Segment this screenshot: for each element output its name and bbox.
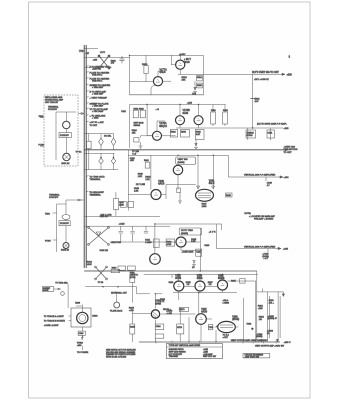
resistor R413 bbox=[166, 239, 175, 246]
svg-text:(6DJ8): (6DJ8) bbox=[232, 319, 239, 321]
svg-text:VERT OUTPUT AMPL V183 V184 +30: VERT OUTPUT AMPL V183 V184 +300V bbox=[231, 339, 268, 342]
resistor R334 bbox=[170, 129, 177, 137]
box C421 bbox=[196, 249, 202, 256]
svg-text:6DJ8: 6DJ8 bbox=[183, 112, 189, 115]
wire oval feeds bbox=[198, 155, 213, 189]
wire right rail row4 bbox=[200, 224, 221, 271]
wire left drop row3 bbox=[150, 155, 152, 189]
wire hv col 0 bbox=[243, 298, 245, 342]
net to crt bbox=[86, 121, 88, 122]
svg-text:TO TRACE A +LIGHT: TO TRACE A +LIGHT bbox=[44, 315, 65, 318]
tube V182B bbox=[150, 254, 161, 265]
svg-text:2.2K: 2.2K bbox=[134, 191, 139, 193]
svg-text:TERMINAL: TERMINAL bbox=[48, 105, 59, 108]
svg-text:RT330: RT330 bbox=[247, 135, 254, 137]
resistor R310 bbox=[144, 66, 148, 74]
wire row1 output line bbox=[178, 69, 285, 74]
svg-text:+ V164 AMP: + V164 AMP bbox=[92, 86, 104, 89]
svg-text:V184: V184 bbox=[197, 275, 203, 277]
svg-text:+C420 100K: +C420 100K bbox=[182, 252, 194, 254]
wire pickoff1 to bus bbox=[78, 113, 84, 115]
tube V179A 6DJ8 bbox=[194, 116, 203, 125]
wire to power bbox=[81, 346, 83, 350]
capacitor C403 bbox=[130, 226, 134, 241]
wire right rail bbox=[202, 55, 204, 95]
svg-text:R321 R322: R321 R322 bbox=[134, 108, 145, 110]
arrowhead row4 bbox=[278, 247, 281, 249]
wire hv col 1 bbox=[256, 271, 258, 342]
tube V178A 6BQ7 bbox=[153, 131, 162, 140]
resistor R261 bbox=[130, 275, 135, 283]
svg-text:LINE TRIG: LINE TRIG bbox=[111, 242, 122, 244]
resistor R262 bbox=[130, 324, 135, 334]
resistor R407 bbox=[128, 266, 136, 270]
tube V178B 6DJ8 bbox=[176, 116, 185, 125]
svg-text:+ LOCATED ON MAIN AMP: + LOCATED ON MAIN AMP bbox=[249, 215, 275, 218]
rails left row4 bbox=[84, 216, 170, 226]
capacitor C331 bbox=[267, 130, 275, 138]
junction dot bbox=[216, 325, 218, 327]
svg-text:B290: B290 bbox=[92, 316, 98, 318]
svg-text:+225: +225 bbox=[187, 103, 193, 105]
ground row4 bbox=[192, 261, 196, 266]
svg-text:100K: 100K bbox=[87, 264, 92, 266]
net heater A bbox=[86, 66, 88, 67]
resistor R412 bbox=[154, 239, 160, 248]
net heater B bbox=[86, 72, 88, 73]
net stub left c bbox=[53, 212, 57, 214]
wire pot rail2 bbox=[84, 153, 114, 158]
svg-text:V163 PIN 4: V163 PIN 4 bbox=[92, 81, 103, 83]
svg-text:TRIGGER: TRIGGER bbox=[169, 356, 179, 358]
crossed network X1 bbox=[88, 227, 110, 246]
wire tube tops bbox=[179, 274, 223, 281]
net vert amp bbox=[86, 91, 88, 92]
title block table bbox=[167, 343, 223, 358]
svg-text:6.8K: 6.8K bbox=[196, 134, 201, 136]
wire grid row4 bbox=[110, 224, 176, 254]
svg-text:TP 28: TP 28 bbox=[98, 282, 104, 284]
svg-text:+225V 1A: +225V 1A bbox=[92, 68, 102, 71]
svg-text:FROM +: FROM + bbox=[163, 309, 172, 311]
wire hv col 2 pair bbox=[267, 292, 269, 342]
svg-text:+VERT SIG: +VERT SIG bbox=[284, 146, 296, 148]
svg-text:WITH BLUE OUTLINE: WITH BLUE OUTLINE bbox=[106, 357, 127, 359]
svg-text:TP8: TP8 bbox=[79, 50, 84, 53]
diode arrow A bbox=[197, 186, 200, 189]
net to delay line bbox=[86, 103, 88, 104]
wire cathode bus row5 bbox=[173, 292, 237, 294]
svg-text:B401 A2: B401 A2 bbox=[62, 162, 71, 165]
tube V184 6DK6 bbox=[195, 281, 205, 291]
pot R204 bbox=[111, 138, 116, 146]
tube internal electrodes bbox=[153, 63, 224, 320]
wire plate drop bbox=[177, 164, 179, 189]
left-of-bus take-off labels row1 bbox=[86, 65, 112, 99]
wire bottomleft rail1 bbox=[84, 270, 132, 272]
net trig pickoff b bbox=[86, 191, 88, 192]
resistor R207 bbox=[114, 199, 119, 210]
wire row4 top rail bbox=[155, 223, 222, 225]
wire mid drop bbox=[194, 81, 196, 90]
resistor R406 bbox=[118, 266, 126, 270]
svg-text:TRIG: TRIG bbox=[45, 213, 50, 215]
svg-text:DLY LINE: DLY LINE bbox=[136, 184, 146, 186]
lamp B403 bbox=[63, 243, 69, 249]
svg-text:6DJ8: 6DJ8 bbox=[184, 61, 190, 64]
junction dot hv bbox=[251, 328, 253, 330]
svg-text:VERTICAL SIG P-P AMPLIFIER: VERTICAL SIG P-P AMPLIFIER bbox=[244, 174, 276, 177]
svg-text:+ V165 AMP: + V165 AMP bbox=[92, 93, 104, 96]
wire pickoff2 frame bbox=[57, 204, 66, 252]
jack J291 bbox=[114, 302, 120, 308]
net to dly amp bbox=[86, 108, 88, 109]
svg-text:6AU6: 6AU6 bbox=[160, 71, 167, 74]
thermistor RT330 bbox=[248, 128, 271, 140]
resistor R315 bbox=[197, 83, 203, 88]
arrowhead output bbox=[282, 73, 285, 75]
resistor R290 bbox=[111, 269, 120, 272]
wire row4 bottom rail bbox=[84, 270, 257, 272]
svg-text:470K: 470K bbox=[167, 244, 172, 246]
left-of-bus take-off labels row2 bbox=[86, 102, 109, 127]
resistor R341 bbox=[145, 162, 150, 168]
wire r207 bbox=[115, 192, 117, 216]
wire row5 feed bbox=[228, 281, 256, 342]
wire grid feed row2 bbox=[147, 105, 152, 136]
svg-text:TO POWER: TO POWER bbox=[77, 352, 89, 354]
wire box to jack bbox=[54, 288, 61, 290]
net vert preamp bbox=[86, 97, 88, 98]
pot R203 bbox=[99, 138, 104, 146]
capacitor C349 bbox=[265, 177, 267, 181]
resistor R272 bbox=[179, 307, 188, 311]
svg-text:(R285): (R285) bbox=[256, 336, 263, 338]
svg-text:CRT CIRCUIT: CRT CIRCUIT bbox=[45, 102, 59, 104]
svg-text:470 +: 470 + bbox=[269, 303, 275, 305]
coil L402 bbox=[62, 215, 70, 220]
net to blank bbox=[86, 115, 88, 116]
wire cathode row2 bbox=[140, 136, 142, 138]
wire row3 output bbox=[228, 176, 283, 178]
svg-text:PRE-AMP + BOARD: PRE-AMP + BOARD bbox=[254, 217, 274, 220]
svg-text:B403 A2: B403 A2 bbox=[61, 249, 70, 252]
svg-text:+DLY +4 SIG 1X: +DLY +4 SIG 1X bbox=[254, 79, 269, 81]
capacitor C319 bbox=[250, 98, 255, 100]
svg-text:PLATE JACK: PLATE JACK bbox=[110, 309, 123, 312]
svg-text:TO CRT: TO CRT bbox=[284, 152, 293, 154]
svg-text:220K: 220K bbox=[119, 204, 124, 206]
wire v187 bottom bbox=[200, 324, 202, 342]
svg-text:+CRT: +CRT bbox=[223, 337, 229, 339]
svg-text:EXTERNAL CRT: EXTERNAL CRT bbox=[111, 291, 127, 294]
svg-text:TO CRT: TO CRT bbox=[90, 125, 98, 127]
net stub left b bbox=[40, 145, 44, 147]
wire row4 output bbox=[217, 248, 282, 250]
wire right drop row3 bbox=[227, 155, 229, 177]
wire drops bbox=[179, 290, 223, 314]
svg-text:TERMINAL: TERMINAL bbox=[90, 178, 102, 181]
svg-text:6EW6: 6EW6 bbox=[218, 278, 225, 280]
wire pickoff2 to bus bbox=[66, 199, 84, 204]
svg-text:VERT SIG: VERT SIG bbox=[178, 159, 188, 161]
note block bottom left bbox=[106, 348, 136, 358]
jack J290 bbox=[61, 292, 65, 296]
note box bottom right bbox=[243, 353, 270, 358]
svg-text:TP 94: TP 94 bbox=[76, 151, 83, 153]
arrowhead rail b bbox=[276, 339, 278, 342]
svg-text:GATE: GATE bbox=[43, 289, 49, 292]
wire upper rail bbox=[84, 56, 129, 58]
tube V182A bbox=[176, 237, 186, 247]
wire lower stub bbox=[84, 66, 104, 68]
resistor R202 bbox=[87, 141, 92, 148]
tube V177B 6AU6 bbox=[176, 60, 185, 69]
wire left col row5 bbox=[131, 271, 133, 342]
wire tube bottom bbox=[81, 327, 83, 331]
net trig pickoff a bbox=[86, 176, 88, 177]
main vertical bus bbox=[84, 45, 86, 268]
resistor R344 bbox=[177, 188, 181, 193]
diode arrow B bbox=[212, 186, 215, 189]
wire row2 dark separator bbox=[84, 149, 288, 151]
svg-text:R310: R310 bbox=[142, 64, 148, 66]
svg-text:+CV TO +.01V: +CV TO +.01V bbox=[90, 122, 105, 124]
pot R206 bbox=[111, 158, 116, 164]
svg-text:PUSH: PUSH bbox=[39, 144, 45, 146]
junction dot pot b bbox=[113, 157, 115, 159]
wire grid feed bbox=[130, 55, 154, 81]
net heater D bbox=[86, 84, 88, 85]
svg-text:V162 PIN 4: V162 PIN 4 bbox=[92, 75, 103, 77]
svg-text:6AU6: 6AU6 bbox=[201, 311, 207, 314]
wire row1 top rail bbox=[130, 54, 204, 56]
junction dots bbox=[129, 55, 254, 295]
wire bottomleft rail2 bbox=[85, 287, 136, 294]
wire cathode loop bbox=[151, 85, 155, 95]
net stub left a bbox=[40, 117, 44, 119]
resistor R335 bbox=[181, 129, 190, 137]
box sweep takeoff bbox=[42, 287, 54, 292]
wire mid drops row5 bbox=[172, 274, 216, 342]
svg-text:1 MEG: 1 MEG bbox=[145, 242, 152, 244]
svg-text:(6AN8): (6AN8) bbox=[178, 161, 185, 164]
svg-text:PICKOFF: PICKOFF bbox=[60, 223, 69, 225]
wire tube chain bbox=[184, 285, 218, 287]
wire row5 bottom rail bbox=[139, 341, 280, 343]
lamp B827 crossed symbol bbox=[98, 55, 110, 69]
wire left feed row5 bbox=[137, 293, 150, 295]
resistor R325 bbox=[134, 138, 139, 142]
CRT V189 oval bbox=[218, 321, 236, 332]
svg-text:(DLY'D SWP) MAIN P-P AMPL: (DLY'D SWP) MAIN P-P AMPL bbox=[257, 123, 288, 126]
svg-text:2.2K: 2.2K bbox=[145, 179, 150, 181]
svg-text:15K: 15K bbox=[132, 132, 136, 134]
tube B401 bbox=[63, 121, 70, 128]
svg-text:TERMINAL: TERMINAL bbox=[90, 194, 102, 197]
delay line V181 oval bbox=[196, 189, 214, 201]
svg-text:SWP DLY 547: SWP DLY 547 bbox=[203, 356, 217, 358]
transformer T270 bbox=[208, 325, 213, 330]
svg-text:TO TRACE B ROTATE: TO TRACE B ROTATE bbox=[44, 320, 66, 323]
svg-text:+ V169: + V169 bbox=[92, 118, 99, 120]
resistor R322 bbox=[140, 110, 145, 118]
svg-text:(HTR): (HTR) bbox=[130, 277, 136, 279]
arrowhead rail a bbox=[260, 339, 262, 342]
wire v186 top bbox=[155, 294, 162, 309]
svg-text:VERT OUTPUT AMP +300V SW: VERT OUTPUT AMP +300V SW bbox=[255, 344, 284, 347]
svg-text:DEFLECTION: DEFLECTION bbox=[284, 149, 298, 151]
svg-text:6BQ7A: 6BQ7A bbox=[159, 125, 167, 128]
svg-text:6AN8: 6AN8 bbox=[155, 302, 161, 305]
svg-text:(6AN8): (6AN8) bbox=[181, 232, 188, 235]
svg-text:V186: V186 bbox=[155, 301, 161, 303]
svg-text:DLY'D VERT SIG TO CRT: DLY'D VERT SIG TO CRT bbox=[252, 72, 279, 74]
tube V187 bbox=[196, 314, 207, 325]
capacitor C293 bbox=[78, 331, 85, 335]
svg-text:+100 THRU 399: +100 THRU 399 bbox=[245, 356, 260, 358]
left-of-bus rows 3 region labels bbox=[86, 176, 105, 197]
resistor R332 bbox=[224, 105, 226, 127]
shield box V291 bbox=[71, 308, 91, 327]
capacitor C402 bbox=[119, 226, 123, 241]
svg-text:V185: V185 bbox=[218, 275, 224, 277]
svg-text:+1 V R: +1 V R bbox=[209, 231, 216, 233]
wire cathode drop bbox=[195, 139, 197, 146]
svg-text:+350 V: +350 V bbox=[284, 342, 292, 344]
svg-text:TO HOLDOFF: TO HOLDOFF bbox=[90, 192, 105, 194]
svg-text:1 MEG: 1 MEG bbox=[223, 302, 230, 304]
svg-text:V187: V187 bbox=[201, 309, 207, 311]
svg-text:TRIG: TRIG bbox=[39, 116, 44, 118]
box C265 bbox=[155, 334, 164, 338]
svg-text:V189: V189 bbox=[232, 316, 238, 318]
junction dots rail2 bbox=[102, 286, 104, 288]
wire v186 right bbox=[161, 313, 196, 315]
svg-text:REPLACING A406: REPLACING A406 bbox=[45, 96, 63, 99]
resistor R336 bbox=[195, 129, 204, 139]
svg-text:6AL5: 6AL5 bbox=[209, 182, 215, 185]
tube V183 6CB6 bbox=[174, 281, 184, 291]
wire v186 bottom bbox=[154, 320, 156, 343]
net label right row2 bbox=[284, 146, 298, 154]
svg-text:PICKOFF: PICKOFF bbox=[49, 197, 59, 199]
svg-text:(R283) 47: (R283) 47 bbox=[268, 318, 278, 320]
wire row2 mid line bbox=[176, 105, 283, 129]
svg-text:TO TRIG CKT2: TO TRIG CKT2 bbox=[90, 176, 106, 178]
wire hv link top bbox=[257, 292, 284, 295]
svg-text:+ VERT PREAMP: + VERT PREAMP bbox=[90, 96, 108, 99]
svg-text:PICKOFF: PICKOFF bbox=[48, 109, 58, 111]
scattered value labels bbox=[93, 59, 270, 284]
wire row3 left rail bbox=[127, 150, 129, 211]
svg-text:+225: +225 bbox=[283, 249, 289, 251]
wire row5 top rail bbox=[144, 273, 258, 275]
wire row3 top rail bbox=[128, 154, 228, 156]
svg-text:+ V166 AMP: + V166 AMP bbox=[92, 105, 104, 108]
svg-text:+225: +225 bbox=[284, 128, 290, 130]
svg-text:T260: T260 bbox=[246, 324, 252, 326]
geometry pot network right of bus bbox=[84, 134, 113, 139]
resistor R349 bbox=[226, 193, 233, 197]
ground arrow bbox=[193, 87, 197, 92]
svg-text:6AU6: 6AU6 bbox=[158, 183, 165, 186]
wire pickoff1 bbox=[56, 112, 76, 160]
wire hv col 3 pair bbox=[278, 292, 280, 342]
wire grid row3 bbox=[128, 185, 195, 200]
wire hv stub bbox=[262, 289, 264, 292]
net heater C bbox=[86, 78, 88, 79]
wire v186 grid bbox=[132, 313, 151, 315]
capacitor C246 bbox=[121, 202, 127, 208]
tube V185 6EW6 bbox=[218, 280, 228, 290]
crossed network X3 bbox=[95, 266, 108, 280]
wire row1 bottom rail bbox=[130, 94, 204, 96]
wire arrow down bbox=[81, 335, 83, 340]
resistor R274 bbox=[177, 324, 184, 334]
wire left drop bbox=[129, 55, 131, 94]
ground symbol row2b bbox=[194, 143, 198, 148]
wire plate row4 bbox=[181, 242, 202, 250]
wire plate up bbox=[158, 55, 176, 81]
svg-text:V177: V177 bbox=[100, 52, 106, 54]
tube label box row4 bbox=[179, 228, 201, 235]
capacitor C404 bbox=[144, 226, 148, 233]
box C264 bbox=[155, 324, 164, 330]
svg-text:1M: 1M bbox=[259, 319, 262, 321]
svg-text:VERTICAL SIG P-P AMPLIFIER: VERTICAL SIG P-P AMPLIFIER bbox=[244, 245, 276, 248]
box pickoff2 bbox=[59, 221, 70, 226]
note text row4 bbox=[245, 213, 276, 220]
net rows into tube bbox=[44, 315, 71, 327]
resistor R321 bbox=[133, 110, 138, 118]
svg-text:PUSH: PUSH bbox=[45, 240, 51, 242]
svg-text:+225 1A: +225 1A bbox=[100, 215, 108, 218]
capacitor C301 bbox=[120, 56, 125, 63]
wire top stub bbox=[84, 48, 98, 50]
rail junction ticks bbox=[156, 341, 276, 344]
box pickoff1 bbox=[59, 133, 71, 138]
capacitor drop to row2 bbox=[252, 74, 254, 128]
arrowhead hv link bbox=[282, 294, 284, 297]
tube V291 bbox=[77, 312, 88, 323]
tube V186 6AN8 bbox=[151, 310, 159, 318]
junction dot pot a bbox=[100, 157, 102, 159]
svg-text:DLY'D TRIG: DLY'D TRIG bbox=[181, 230, 193, 232]
svg-text:220K: 220K bbox=[202, 206, 207, 208]
tube V180B 6AU6 bbox=[151, 190, 161, 200]
svg-text:+CASE +LIGHT: +CASE +LIGHT bbox=[44, 324, 60, 327]
svg-text:+100: +100 bbox=[287, 75, 293, 77]
svg-text:R402 1M: R402 1M bbox=[100, 250, 109, 252]
wire crt leads bbox=[206, 319, 238, 327]
wire plate output bbox=[179, 55, 181, 60]
svg-text:V183: V183 bbox=[175, 275, 181, 277]
resistor R265 bbox=[240, 279, 246, 283]
svg-text:TYPE 547 VERTICAL AMPLIFIER: TYPE 547 VERTICAL AMPLIFIER bbox=[169, 344, 201, 347]
svg-text:+C410: +C410 bbox=[119, 223, 126, 225]
dashed enclosure trigger pickoff 1 bbox=[44, 95, 78, 166]
pot R205 bbox=[99, 158, 104, 164]
svg-text:15K: 15K bbox=[182, 79, 186, 81]
tube V180 label box bbox=[176, 157, 196, 164]
ground symbol row2a bbox=[139, 146, 143, 148]
ground row3 bbox=[178, 193, 182, 204]
wire jack drop bbox=[67, 284, 69, 308]
arrowhead row3 out bbox=[280, 176, 283, 178]
svg-text:TV TRIG SEL: TV TRIG SEL bbox=[55, 282, 69, 284]
svg-text:+ N: + N bbox=[156, 109, 160, 111]
